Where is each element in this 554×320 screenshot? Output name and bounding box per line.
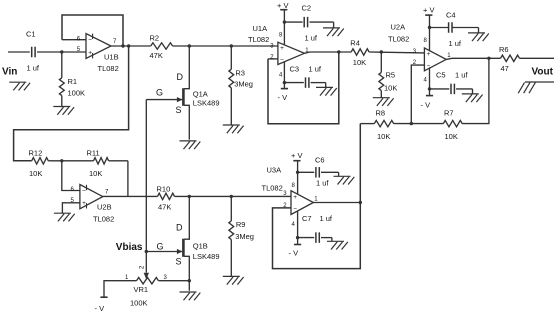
svg-text:+ V: + V [277,1,288,10]
svg-text:G: G [156,87,163,97]
svg-text:10K: 10K [377,132,390,141]
svg-text:+: + [88,50,92,57]
svg-text:+: + [293,194,297,201]
svg-text:- V: - V [421,100,431,109]
svg-text:U2B: U2B [97,202,112,211]
svg-text:−: − [280,56,284,63]
svg-text:10K: 10K [89,169,102,178]
svg-text:R12: R12 [29,148,43,157]
svg-text:10K: 10K [353,58,366,67]
svg-text:TL082: TL082 [98,64,119,73]
svg-text:−: − [88,37,92,44]
svg-text:- V: - V [95,304,105,313]
svg-text:R5: R5 [386,70,396,79]
svg-text:1 uf: 1 uf [455,70,468,79]
svg-text:TL082: TL082 [388,34,409,43]
svg-text:R4: R4 [350,38,360,47]
svg-text:10K: 10K [29,169,42,178]
svg-text:C1: C1 [26,30,36,39]
svg-text:C3: C3 [290,65,300,74]
svg-text:- V: - V [278,93,288,102]
svg-text:VR1: VR1 [134,285,149,294]
svg-text:C7: C7 [302,214,312,223]
svg-text:10K: 10K [445,132,458,141]
svg-text:G: G [157,241,164,251]
svg-text:R7: R7 [444,108,454,117]
svg-text:1 uf: 1 uf [27,64,40,73]
svg-text:R3: R3 [235,68,245,77]
svg-text:S: S [176,257,182,267]
svg-text:+: + [82,200,86,207]
svg-text:47K: 47K [150,51,163,60]
svg-text:1 uf: 1 uf [320,214,333,223]
svg-text:47: 47 [501,64,509,73]
svg-text:U3A: U3A [267,166,282,175]
svg-text:100K: 100K [130,298,148,307]
svg-text:1 uf: 1 uf [316,178,329,187]
svg-text:R11: R11 [87,148,100,157]
svg-text:+ V: + V [423,5,434,14]
svg-text:TL082: TL082 [248,35,269,44]
svg-text:100K: 100K [68,88,86,97]
svg-text:LSK489: LSK489 [193,99,220,108]
svg-text:TL082: TL082 [262,183,283,192]
svg-text:R9: R9 [236,220,246,229]
svg-text:C5: C5 [436,70,446,79]
svg-text:Q1B: Q1B [193,241,208,250]
svg-text:+: + [427,51,431,58]
svg-text:C4: C4 [446,10,456,19]
svg-text:+ V: + V [291,151,302,160]
svg-text:U2A: U2A [391,22,406,31]
svg-text:U1A: U1A [253,24,268,33]
svg-text:R8: R8 [376,108,386,117]
svg-text:R2: R2 [150,33,160,42]
svg-text:U1B: U1B [104,53,119,62]
svg-text:Vout: Vout [532,67,554,78]
svg-text:10K: 10K [384,83,397,92]
svg-text:47K: 47K [158,203,171,212]
svg-text:R1: R1 [68,77,78,86]
svg-text:R6: R6 [499,45,509,54]
svg-text:LSK489: LSK489 [193,252,220,261]
svg-text:3Meg: 3Meg [234,80,253,89]
svg-text:C6: C6 [315,155,325,164]
svg-text:3Meg: 3Meg [235,232,254,241]
svg-text:C2: C2 [302,4,312,13]
svg-text:Vbias: Vbias [116,242,143,253]
svg-text:Q1A: Q1A [193,89,208,98]
svg-text:S: S [176,105,182,115]
svg-text:−: − [293,206,297,213]
svg-text:−: − [82,188,86,195]
svg-text:+: + [280,45,284,52]
svg-text:1 uf: 1 uf [309,65,322,74]
svg-text:Vin: Vin [2,67,17,78]
svg-text:D: D [177,72,184,82]
svg-text:D: D [176,222,183,232]
svg-text:- V: - V [289,248,299,257]
svg-text:TL082: TL082 [93,214,114,223]
svg-text:R10: R10 [157,184,171,193]
svg-text:1 uf: 1 uf [449,39,462,48]
svg-text:1 uf: 1 uf [305,33,318,42]
